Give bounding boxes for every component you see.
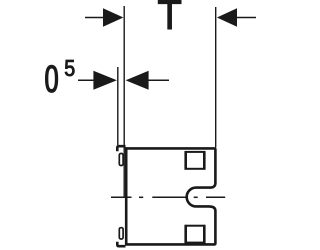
dimension T: label T <box>158 0 181 29</box>
dimension 0.5: superscript 5 <box>65 60 74 76</box>
center line <box>111 196 225 198</box>
bottom square hole <box>186 226 205 243</box>
dimension T: right leader line <box>236 17 256 19</box>
top-left hook <box>117 146 125 151</box>
bracket body outline <box>125 148 216 244</box>
extension line R (body right face, x=215.7) <box>215 7 217 148</box>
top square hole <box>186 152 205 169</box>
dimension 0.5: label 0 <box>46 65 58 92</box>
dimension 0.5: right-pointing arrowhead <box>93 71 117 90</box>
dimension T: left arrowhead <box>103 8 123 27</box>
bottom-left hook <box>117 242 125 246</box>
extension line A (left face of tab, x=117.8) <box>117 67 119 145</box>
top-left tab <box>119 154 123 166</box>
bracket left face <box>125 147 128 244</box>
dimension T: right arrowhead <box>217 8 237 27</box>
dimension 0.5: left-pointing arrowhead <box>126 71 149 90</box>
extension line B (body left face, x=124.2) <box>123 6 125 197</box>
bottom-left tab <box>119 228 123 239</box>
dimension T: left leader line <box>85 17 105 19</box>
dimension 0.5: right leader line <box>148 79 169 81</box>
dimension 0.5: left leader line <box>78 79 95 81</box>
